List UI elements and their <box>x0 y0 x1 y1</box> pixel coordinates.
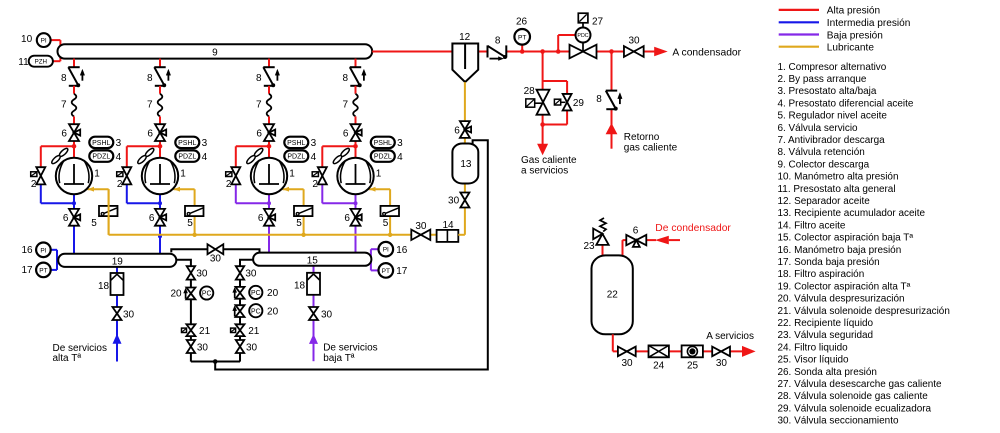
svg-text:2: 2 <box>226 179 232 190</box>
svg-text:21. Válvula solenoide despresu: 21. Válvula solenoide despresurización <box>778 306 950 317</box>
svg-text:Gas caliente: Gas caliente <box>521 155 577 166</box>
svg-text:4: 4 <box>397 152 403 163</box>
svg-text:30. Válvula seccionamiento: 30. Válvula seccionamiento <box>778 416 899 427</box>
svg-text:PDC: PDC <box>577 33 588 39</box>
svg-text:6: 6 <box>258 213 264 224</box>
svg-text:17: 17 <box>21 265 33 276</box>
svg-text:7: 7 <box>343 100 349 111</box>
svg-text:PZH: PZH <box>35 58 47 65</box>
svg-text:Retorno: Retorno <box>624 132 660 143</box>
svg-text:4: 4 <box>311 152 317 163</box>
svg-text:8. Válvula retención: 8. Válvula retención <box>778 147 865 158</box>
svg-text:7. Antivibrador descarga: 7. Antivibrador descarga <box>778 135 886 146</box>
svg-text:18. Filtro aspiración: 18. Filtro aspiración <box>778 269 865 280</box>
svg-text:2: 2 <box>312 179 318 190</box>
svg-text:20: 20 <box>267 306 279 317</box>
svg-text:7: 7 <box>256 100 262 111</box>
svg-text:30: 30 <box>210 254 222 265</box>
svg-text:gas caliente: gas caliente <box>624 142 678 153</box>
svg-text:8: 8 <box>61 73 67 84</box>
svg-text:6: 6 <box>61 129 67 140</box>
svg-text:3: 3 <box>202 138 208 149</box>
svg-text:3. Presostato alta/baja: 3. Presostato alta/baja <box>778 86 877 97</box>
svg-text:30: 30 <box>123 309 135 320</box>
svg-text:Intermedia presión: Intermedia presión <box>827 18 911 29</box>
svg-text:PT: PT <box>518 34 526 41</box>
svg-text:PDZL: PDZL <box>178 154 196 161</box>
svg-text:6: 6 <box>147 129 153 140</box>
svg-text:24: 24 <box>653 360 665 371</box>
svg-text:alta Tª: alta Tª <box>53 353 82 364</box>
svg-text:6: 6 <box>343 129 349 140</box>
svg-text:22. Recipiente líquido: 22. Recipiente líquido <box>778 318 874 329</box>
svg-text:Alta presión: Alta presión <box>827 6 880 17</box>
svg-text:6: 6 <box>633 226 639 237</box>
svg-text:5: 5 <box>383 218 389 229</box>
svg-text:17. Sonda baja presión: 17. Sonda baja presión <box>778 257 880 268</box>
svg-text:3: 3 <box>397 138 403 149</box>
svg-text:4. Presostato diferencial acei: 4. Presostato diferencial aceite <box>778 98 914 109</box>
svg-text:27: 27 <box>592 16 604 27</box>
svg-text:30: 30 <box>321 309 333 320</box>
svg-text:1: 1 <box>376 169 382 180</box>
svg-text:PSHL: PSHL <box>287 140 305 147</box>
svg-text:4: 4 <box>202 152 208 163</box>
svg-text:PI: PI <box>40 247 46 254</box>
svg-text:1: 1 <box>180 169 186 180</box>
svg-text:8: 8 <box>596 94 602 105</box>
svg-text:8: 8 <box>256 73 262 84</box>
svg-text:14: 14 <box>442 220 454 231</box>
svg-text:30: 30 <box>196 269 208 280</box>
svg-text:2: 2 <box>117 179 123 190</box>
svg-text:16. Manómetro baja presión: 16. Manómetro baja presión <box>778 245 902 256</box>
svg-text:19. Colector aspiración alta T: 19. Colector aspiración alta Tª <box>778 281 911 292</box>
svg-text:6: 6 <box>454 126 460 137</box>
svg-text:21: 21 <box>199 326 211 337</box>
svg-text:28: 28 <box>524 86 536 97</box>
svg-text:baja Tª: baja Tª <box>323 353 355 364</box>
svg-text:PT: PT <box>382 268 390 275</box>
svg-text:24. Filtro liquido: 24. Filtro liquido <box>778 342 849 353</box>
svg-text:4: 4 <box>116 152 122 163</box>
svg-text:PDZL: PDZL <box>92 154 110 161</box>
svg-text:16: 16 <box>21 245 33 256</box>
svg-text:19: 19 <box>112 256 124 267</box>
svg-text:8: 8 <box>343 73 349 84</box>
svg-text:PI: PI <box>383 247 389 254</box>
svg-text:12. Separador aceite: 12. Separador aceite <box>778 196 871 207</box>
svg-text:8: 8 <box>495 36 501 47</box>
svg-text:PC: PC <box>251 308 261 315</box>
svg-text:30: 30 <box>246 342 258 353</box>
svg-text:8: 8 <box>147 73 153 84</box>
svg-text:15. Colector aspiración baja T: 15. Colector aspiración baja Tª <box>778 233 914 244</box>
svg-text:18: 18 <box>294 281 306 292</box>
svg-text:3: 3 <box>116 138 122 149</box>
svg-text:12: 12 <box>459 32 471 43</box>
svg-text:PT: PT <box>39 267 47 274</box>
svg-text:18: 18 <box>98 281 110 292</box>
svg-text:30: 30 <box>197 342 209 353</box>
svg-text:5. Regulador nivel aceite: 5. Regulador nivel aceite <box>778 111 888 122</box>
svg-text:11. Presostato alta general: 11. Presostato alta general <box>778 184 896 195</box>
svg-text:1: 1 <box>94 169 100 180</box>
svg-text:10. Manómetro alta presión: 10. Manómetro alta presión <box>778 172 899 183</box>
svg-text:15: 15 <box>307 255 319 266</box>
svg-text:30: 30 <box>415 221 427 232</box>
svg-text:22: 22 <box>607 290 619 301</box>
svg-text:26. Sonda alta presión: 26. Sonda alta presión <box>778 367 877 378</box>
svg-text:7: 7 <box>147 100 153 111</box>
svg-text:PDZL: PDZL <box>374 154 392 161</box>
svg-text:30: 30 <box>245 269 257 280</box>
svg-text:5: 5 <box>187 218 193 229</box>
svg-text:17: 17 <box>396 266 408 277</box>
svg-text:Lubricante: Lubricante <box>827 43 875 54</box>
svg-text:9. Colector descarga: 9. Colector descarga <box>778 159 870 170</box>
svg-text:PI: PI <box>41 38 47 45</box>
svg-text:PC: PC <box>202 291 212 298</box>
svg-text:29: 29 <box>573 98 585 109</box>
svg-text:20: 20 <box>170 288 182 299</box>
svg-text:7: 7 <box>61 100 67 111</box>
svg-text:5: 5 <box>296 218 302 229</box>
svg-text:2: 2 <box>31 179 37 190</box>
svg-text:14. Filtro aceite: 14. Filtro aceite <box>778 220 846 231</box>
svg-text:PSHL: PSHL <box>178 140 196 147</box>
svg-text:25. Visor líquido: 25. Visor líquido <box>778 355 850 366</box>
svg-text:30: 30 <box>628 35 640 46</box>
svg-text:A servicios: A servicios <box>706 331 754 342</box>
svg-text:27. Válvula desescarche gas ca: 27. Válvula desescarche gas caliente <box>778 379 943 390</box>
svg-text:Baja presión: Baja presión <box>827 30 883 41</box>
svg-text:2. By pass arranque: 2. By pass arranque <box>778 74 867 85</box>
svg-text:6: 6 <box>256 129 262 140</box>
svg-text:28. Válvula solenoide gas cali: 28. Válvula solenoide gas caliente <box>778 391 929 402</box>
svg-text:21: 21 <box>248 326 260 337</box>
svg-text:13: 13 <box>460 159 472 170</box>
svg-text:11: 11 <box>18 57 29 68</box>
svg-text:30: 30 <box>621 358 633 369</box>
svg-text:30: 30 <box>448 195 460 206</box>
svg-text:25: 25 <box>687 360 699 371</box>
svg-text:PSHL: PSHL <box>374 140 392 147</box>
svg-text:26: 26 <box>516 16 528 27</box>
svg-text:13. Recipiente acumulador acei: 13. Recipiente acumulador aceite <box>778 208 926 219</box>
svg-text:6: 6 <box>344 213 350 224</box>
svg-text:6: 6 <box>63 213 69 224</box>
svg-text:6: 6 <box>149 213 155 224</box>
svg-text:30: 30 <box>716 358 728 369</box>
svg-text:9: 9 <box>212 48 218 59</box>
svg-text:1: 1 <box>289 169 295 180</box>
svg-text:20. Válvula despresurización: 20. Válvula despresurización <box>778 294 905 305</box>
svg-text:PDZL: PDZL <box>287 154 305 161</box>
svg-text:De condensador: De condensador <box>655 223 731 234</box>
svg-text:20: 20 <box>267 288 279 299</box>
svg-text:PSHL: PSHL <box>92 140 110 147</box>
svg-text:23. Válvula seguridad: 23. Válvula seguridad <box>778 330 874 341</box>
svg-text:3: 3 <box>311 138 317 149</box>
svg-text:6. Válvula servicio: 6. Válvula servicio <box>778 123 859 134</box>
svg-text:10: 10 <box>21 34 33 45</box>
svg-text:PC: PC <box>251 290 261 297</box>
svg-text:29. Válvula solenoide ecualiza: 29. Válvula solenoide ecualizadora <box>778 403 932 414</box>
svg-text:1. Compresor alternativo: 1. Compresor alternativo <box>778 62 887 73</box>
svg-text:23: 23 <box>583 241 595 252</box>
svg-text:A condensador: A condensador <box>672 47 741 58</box>
svg-text:a servicios: a servicios <box>521 165 568 176</box>
svg-text:5: 5 <box>91 218 97 229</box>
svg-text:16: 16 <box>396 245 408 256</box>
